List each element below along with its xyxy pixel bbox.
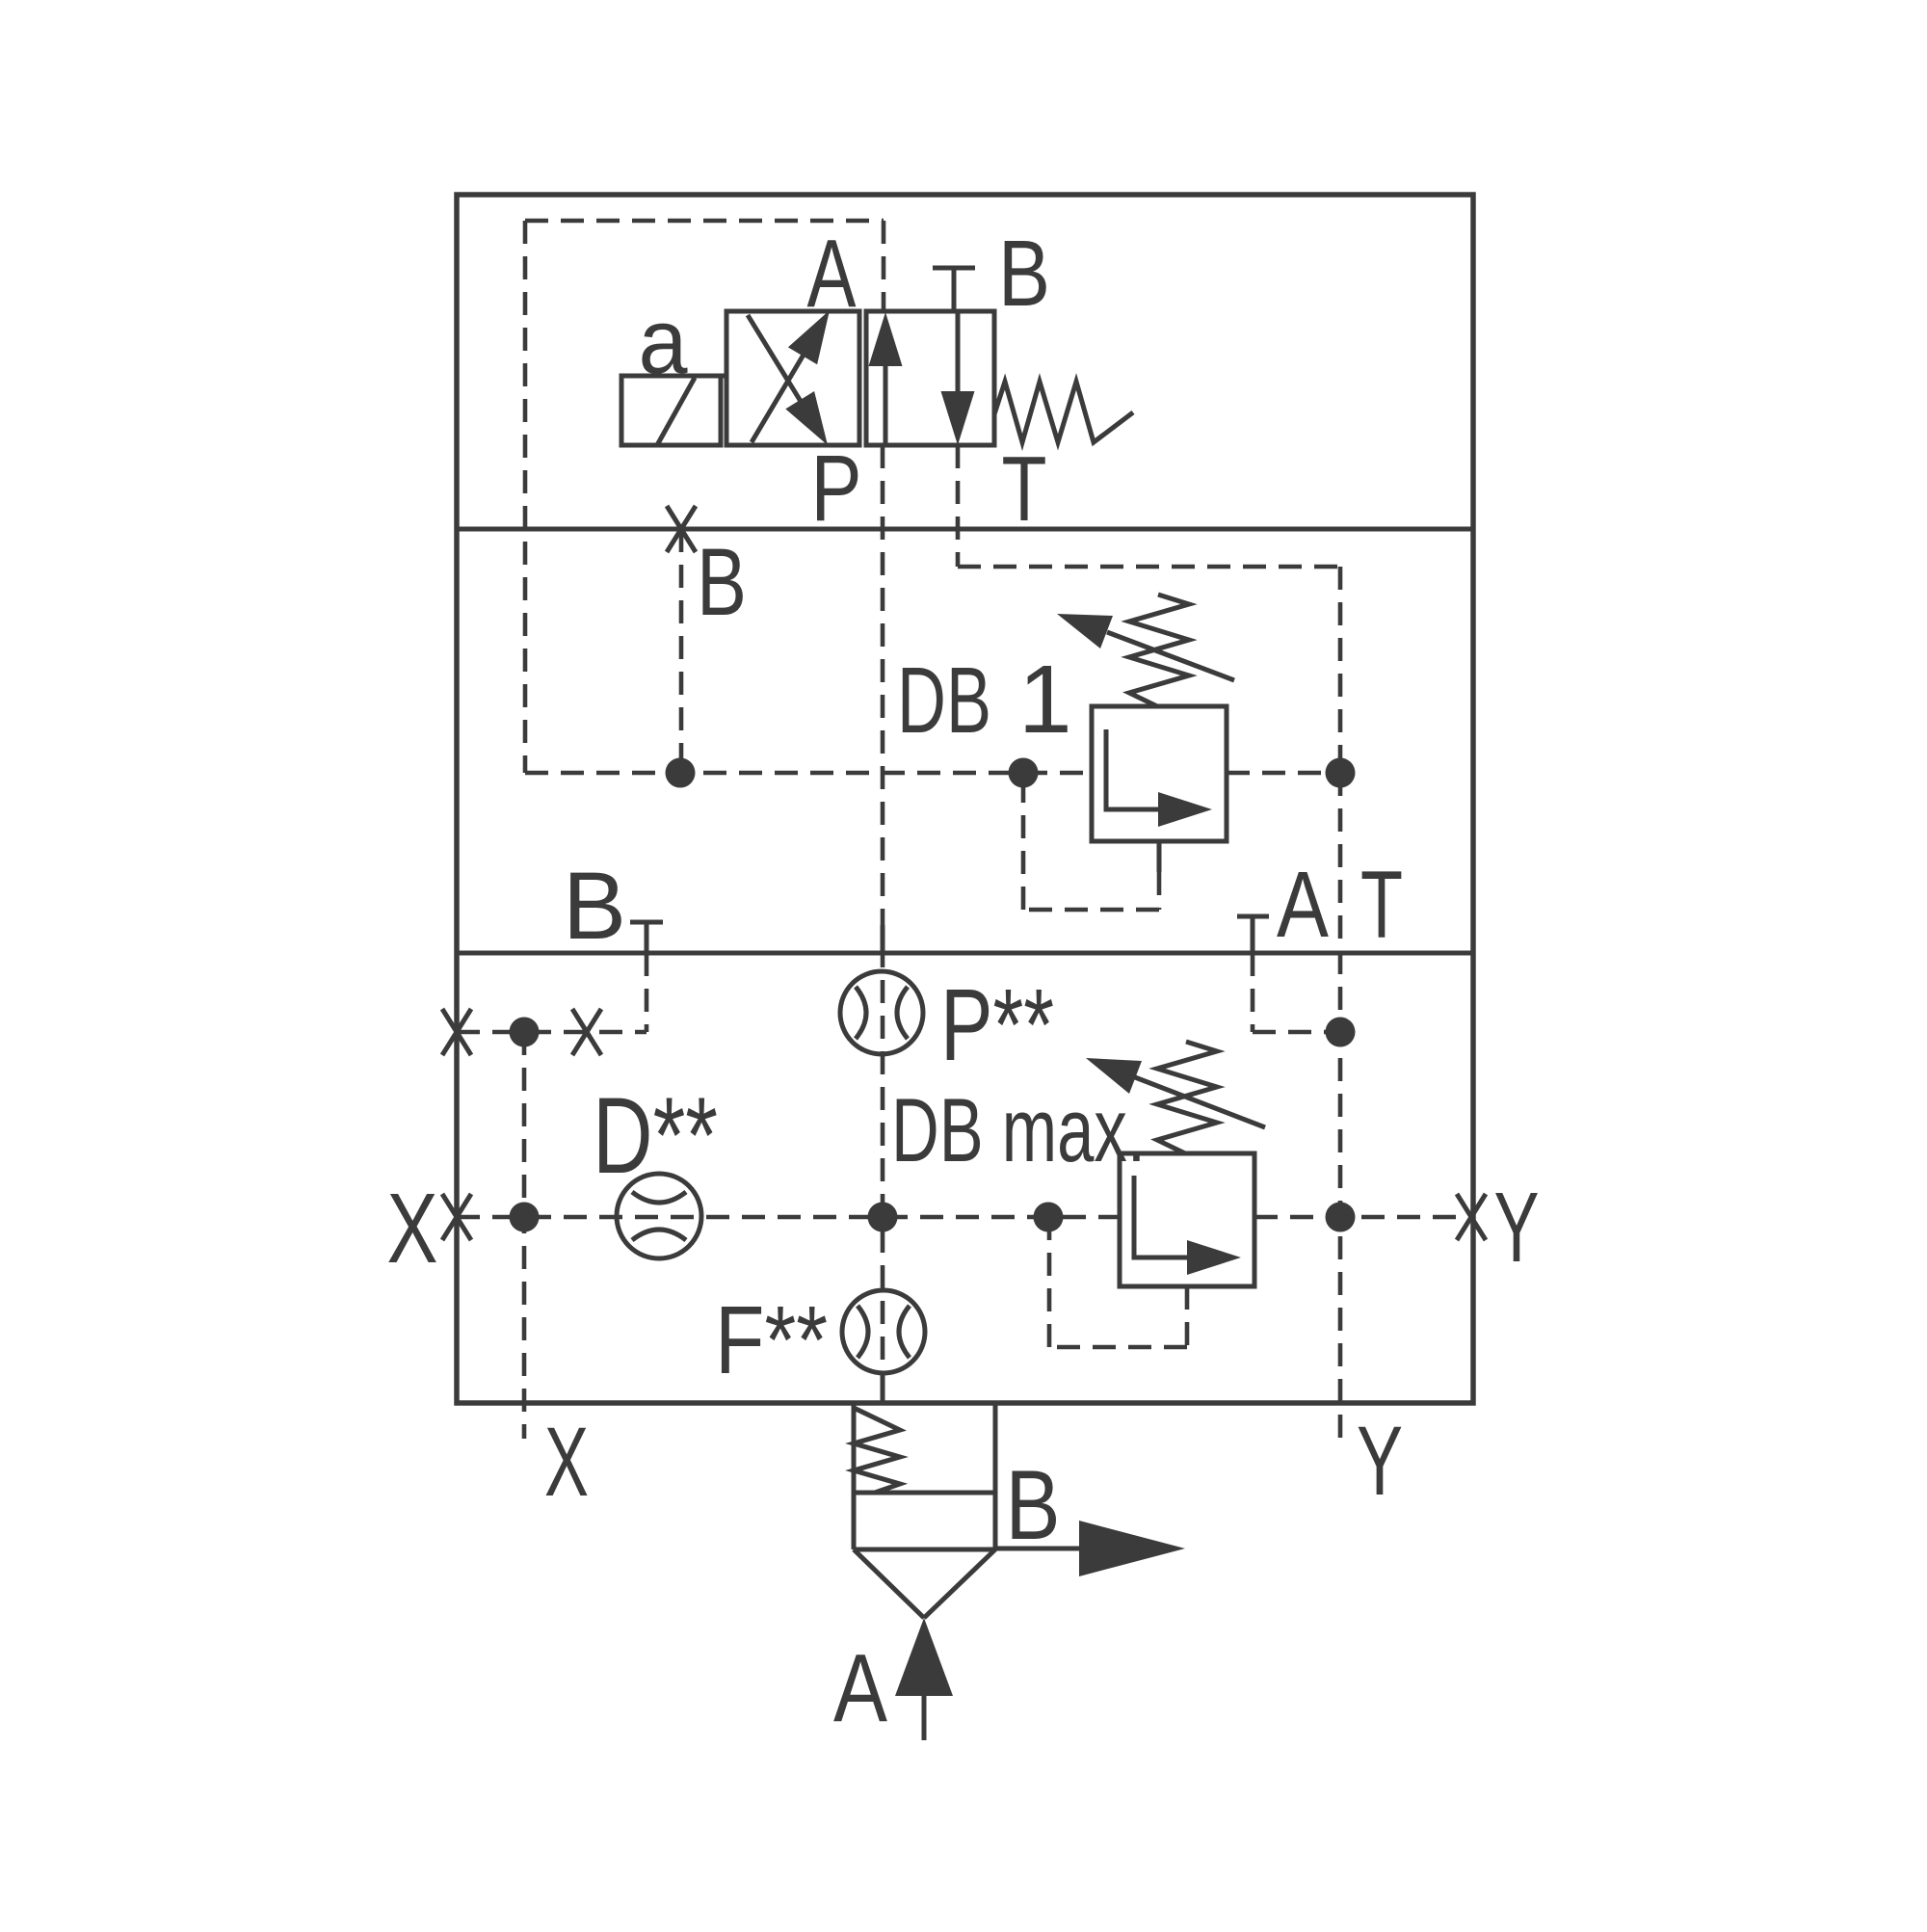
- node dot: [1326, 1018, 1356, 1047]
- logic cartridge valve bottom line: [854, 1548, 995, 1552]
- relief valve DB max adjustment arrow: [1135, 1077, 1265, 1127]
- wire T line to node: [1338, 567, 1343, 773]
- port B flow arrow: [1079, 1521, 1185, 1576]
- svg-text:1: 1: [1018, 646, 1072, 754]
- crossed arrow up-right to A: [752, 350, 806, 442]
- wire X vertical dashed: [522, 1032, 527, 1439]
- orifice F**: [842, 1290, 925, 1373]
- svg-text:P: P: [811, 436, 862, 541]
- relief valve DB max internal flow path: [1134, 1176, 1190, 1257]
- node dot: [666, 758, 696, 788]
- central P pilot dashed line: [881, 445, 885, 1403]
- wire orifice F to block bottom: [881, 1373, 885, 1403]
- solenoid a diagonal: [657, 378, 695, 445]
- node dot: [1326, 1203, 1356, 1232]
- logic cartridge valve spring: [854, 1408, 900, 1493]
- plugged port (cross mid branch): [572, 1009, 601, 1055]
- logic cartridge valve left edge: [852, 1403, 857, 1549]
- svg-text:DB: DB: [897, 648, 991, 753]
- port B stub (middle section): [630, 922, 663, 953]
- wire T port down: [956, 445, 961, 567]
- svg-text:Y: Y: [1494, 1172, 1540, 1283]
- relief valve DB1 body: [1092, 706, 1227, 841]
- directional valve position square 1 (crossed arrows): [726, 311, 859, 445]
- svg-text:B: B: [697, 528, 747, 635]
- relief valve DB max pilot drain: [1185, 1286, 1190, 1347]
- svg-text:DB max.: DB max.: [891, 1079, 1146, 1180]
- plugged port B (cross on divider): [667, 506, 696, 552]
- logic cartridge valve poppet seat: [854, 1549, 995, 1618]
- wire X-Y pilot line right: [1254, 1215, 1473, 1220]
- svg-text:X: X: [544, 1407, 589, 1517]
- plugged port X (cross on border): [442, 1194, 471, 1240]
- relief valve DB1 spring: [1129, 595, 1189, 706]
- valve square2 up arrow P to A: [884, 364, 888, 445]
- pilot line to valve P arrow: [882, 221, 886, 311]
- wire X branch (left): [457, 1030, 647, 1035]
- svg-text:T: T: [1360, 851, 1403, 958]
- port A flow arrow: [895, 1618, 953, 1696]
- wire stub above lower divider: [881, 925, 885, 953]
- node dot: [1034, 1203, 1064, 1232]
- wire A stub dashed down: [1251, 953, 1255, 1032]
- node dot: [868, 1203, 898, 1232]
- svg-text:Y: Y: [1357, 1406, 1403, 1516]
- crossed arrow P to B (down-right): [748, 315, 805, 408]
- port B output line: [995, 1547, 1084, 1551]
- manifold block outline: [457, 195, 1473, 1403]
- orifice D**: [617, 1174, 701, 1258]
- relief valve DB1 internal flow path: [1106, 729, 1161, 809]
- valve square2 down arrow B to T: [956, 311, 961, 395]
- port A line: [922, 1696, 927, 1740]
- svg-text:B: B: [1006, 1450, 1061, 1560]
- svg-text:B: B: [998, 221, 1050, 326]
- wire B branch dashed down: [679, 529, 684, 773]
- pilot control dashed line y802: [525, 771, 1092, 776]
- svg-text:A: A: [833, 1634, 887, 1742]
- wire X-Y pilot line: [457, 1215, 1120, 1220]
- wire T line horizontal: [958, 565, 1340, 569]
- solenoid a coil box: [621, 376, 726, 445]
- logic cartridge valve right edge: [993, 1403, 998, 1549]
- wire B stub dashed down: [645, 953, 649, 1032]
- directional valve position square 2 (parallel arrows): [866, 311, 994, 445]
- plugged port (cross on left border): [442, 1009, 471, 1055]
- plugged port Y (cross on border): [1457, 1194, 1486, 1240]
- node dot: [510, 1203, 540, 1232]
- wire Y vertical dashed: [1338, 773, 1343, 1439]
- relief valve DB max body: [1120, 1153, 1254, 1286]
- pilot supply dashed line (left vertical): [523, 221, 528, 773]
- svg-text:X: X: [387, 1173, 438, 1284]
- lower section divider line: [457, 951, 1473, 956]
- pilot control dashed line y802 right: [1227, 771, 1340, 776]
- node dot: [1326, 758, 1356, 788]
- svg-text:P**: P**: [940, 968, 1054, 1082]
- wire A stub elbow to node: [1253, 1030, 1340, 1035]
- svg-text:D**: D**: [593, 1075, 718, 1196]
- relief valve DB1 adjustment arrow: [1107, 632, 1234, 680]
- svg-text:A: A: [807, 220, 857, 328]
- logic cartridge valve internal line: [854, 1491, 995, 1495]
- svg-text:A: A: [1277, 852, 1329, 957]
- port A stub (middle section): [1237, 916, 1269, 953]
- svg-text:T: T: [1002, 437, 1047, 541]
- orifice P**: [840, 971, 923, 1054]
- svg-text:F**: F**: [715, 1286, 828, 1394]
- node dot: [1009, 758, 1039, 788]
- upper section divider line: [457, 527, 1473, 532]
- svg-text:B: B: [563, 852, 626, 959]
- node dot: [510, 1018, 540, 1047]
- valve return spring: [994, 382, 1133, 442]
- pilot supply dashed line (top): [525, 219, 884, 224]
- relief valve DB max spring: [1157, 1042, 1217, 1153]
- svg-text:a: a: [639, 290, 689, 393]
- valve port B stub: [933, 268, 975, 310]
- relief valve DB1 pilot drain: [1157, 841, 1162, 872]
